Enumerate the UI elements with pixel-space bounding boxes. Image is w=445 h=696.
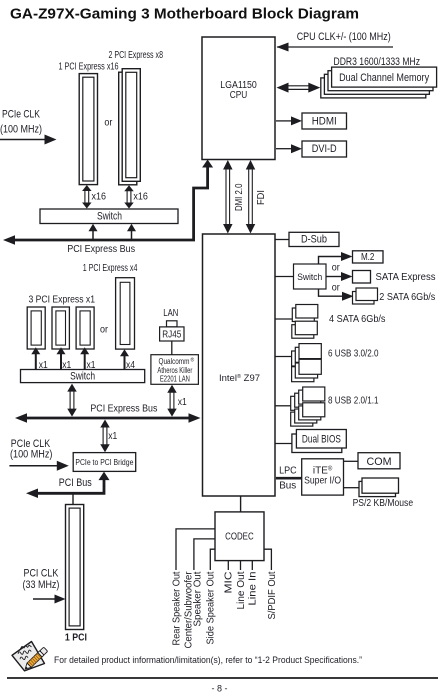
wire chipset to Dual BIOS [275, 443, 292, 445]
wire Line Out [240, 561, 242, 570]
svg-text:CODEC: CODEC [225, 530, 254, 542]
svg-text:PCI CLK: PCI CLK [24, 568, 59, 580]
svg-text:1 PCI Express x16: 1 PCI Express x16 [59, 61, 119, 73]
svg-text:PS/2 KB/Mouse: PS/2 KB/Mouse [353, 497, 414, 509]
slots 2 PCI Express x8 [119, 72, 137, 185]
svg-text:Dual BIOS: Dual BIOS [302, 434, 341, 446]
8 USB port stacks [291, 396, 313, 410]
M.2 box [353, 251, 384, 263]
PCI CLK arrow [33, 598, 55, 600]
6 USB port stacks [292, 351, 314, 366]
svg-text:GA-Z97X-Gaming 3 Motherboard B: GA-Z97X-Gaming 3 Motherboard Block Diagr… [10, 7, 359, 23]
wire chipset to 6 USB [275, 356, 292, 358]
switch box lower [21, 370, 145, 383]
wire switch to 2 SATA [319, 289, 344, 296]
svg-text:Switch: Switch [70, 370, 95, 382]
svg-text:1 PCI: 1 PCI [65, 632, 87, 643]
svg-text:COM: COM [367, 456, 392, 468]
x1 arrow C [84, 352, 86, 370]
svg-text:3 PCI Express x1: 3 PCI Express x1 [29, 293, 96, 305]
x4 arrow [124, 354, 126, 370]
svg-text:E2201 LAN: E2201 LAN [160, 375, 190, 384]
DVI-D wire [276, 148, 292, 150]
wire CPU to PCI Express Bus [14, 163, 208, 240]
wire bus to switch 1 [92, 229, 94, 240]
svg-text:1 PCI Express x4: 1 PCI Express x4 [83, 262, 138, 274]
slot 1 PCI Express x16 [79, 74, 97, 185]
svg-text:(33 MHz): (33 MHz) [23, 579, 60, 591]
footer rule [7, 677, 438, 679]
FDI bus arrow [248, 169, 250, 226]
DVI-D box [302, 141, 347, 157]
svg-text:®: ® [191, 357, 195, 364]
RJ45 box [160, 327, 184, 341]
wire chipset to 8 USB [275, 405, 291, 407]
wire chipset to storage switch [275, 276, 294, 278]
svg-text:or: or [332, 262, 340, 274]
svg-text:PCI Express Bus: PCI Express Bus [90, 402, 157, 414]
Super I/O box iTE [302, 459, 344, 495]
switch box upper [40, 209, 178, 224]
PCI Express Bus lower wire [26, 417, 190, 420]
SATA Express port box [353, 271, 371, 284]
svg-text:DVI-D: DVI-D [312, 143, 337, 155]
svg-text:D-Sub: D-Sub [301, 234, 327, 246]
svg-text:SATA Express: SATA Express [376, 271, 436, 283]
wire bus to switch 2 [131, 229, 133, 240]
PCIe CLK bottom arrow [9, 465, 58, 467]
svg-text:Bus: Bus [279, 479, 296, 491]
storage switch box [294, 264, 327, 289]
svg-text:Dual Channel Memory: Dual Channel Memory [339, 72, 429, 84]
svg-text:PCIe CLK: PCIe CLK [2, 108, 41, 120]
D-Sub wire [275, 239, 289, 241]
wire PCI bus to PCI slot [72, 493, 74, 504]
svg-text:PCI Bus: PCI Bus [59, 477, 92, 489]
svg-text:S/PDIF Out: S/PDIF Out [267, 571, 278, 619]
svg-text:Super I/O: Super I/O [304, 475, 341, 486]
svg-text:FDI: FDI [255, 190, 267, 205]
svg-text:or: or [104, 116, 112, 128]
svg-text:CPU CLK+/- (100 MHz): CPU CLK+/- (100 MHz) [297, 31, 391, 43]
svg-text:CPU: CPU [230, 90, 248, 101]
slot PCI Express x1 A [27, 307, 45, 349]
svg-text:RJ45: RJ45 [162, 329, 181, 340]
x16 arrow 1 [84, 190, 86, 204]
memory stack Dual Channel Memory [321, 78, 426, 98]
svg-text:LAN: LAN [163, 307, 178, 319]
svg-text:or: or [332, 282, 340, 294]
svg-text:HDMI: HDMI [312, 116, 337, 128]
slot PCI Express x1 B [52, 307, 69, 349]
memory bus wire [287, 85, 310, 87]
HDMI wire [276, 120, 292, 122]
svg-text:For detailed product informati: For detailed product information/limitat… [54, 655, 362, 665]
slot PCI Express x1 C [76, 307, 94, 349]
slot 1 PCI [66, 505, 84, 630]
wire MIC [227, 561, 229, 570]
svg-text:Switch: Switch [97, 211, 122, 223]
DMI 2.0 bus arrow [225, 169, 227, 226]
COM box [358, 453, 400, 469]
svg-text:Speaker Out: Speaker Out [193, 571, 204, 626]
svg-text:2 PCI Express x8: 2 PCI Express x8 [109, 49, 164, 61]
svg-text:2 SATA 6Gb/s: 2 SATA 6Gb/s [379, 291, 435, 303]
svg-text:DMI 2.0: DMI 2.0 [233, 183, 245, 211]
note icon [12, 642, 48, 672]
wire S/PDIF Out [264, 549, 271, 570]
svg-text:Line In: Line In [248, 572, 259, 606]
svg-text:M.2: M.2 [361, 252, 375, 263]
wire chipset to 4 SATA [275, 318, 292, 320]
x1 arrow to bridge [102, 427, 104, 446]
wire switch to M.2 [319, 257, 343, 265]
svg-text:Rear Speaker Out: Rear Speaker Out [171, 571, 182, 645]
svg-text:8 USB 2.0/1.1: 8 USB 2.0/1.1 [328, 394, 379, 406]
PCIe to PCI Bridge box [73, 453, 136, 472]
x1 arrow A [35, 352, 37, 370]
CPU box LGA1150 [202, 37, 275, 160]
svg-text:x16: x16 [92, 191, 107, 203]
2 SATA port stack [353, 292, 375, 305]
PCI Bus wire [37, 474, 104, 493]
wire switch to SATA Express [326, 276, 342, 278]
HDMI box [302, 113, 347, 129]
svg-text:Switch: Switch [297, 272, 322, 283]
LAN chip box Qualcomm Atheros Killer E2201 [151, 355, 199, 385]
wire Super I/O to COM [344, 460, 359, 462]
svg-text:Line Out: Line Out [236, 571, 247, 609]
svg-text:(100 MHz): (100 MHz) [10, 449, 52, 461]
svg-text:LPC: LPC [279, 465, 297, 477]
wire Rear Speaker Out [176, 529, 215, 570]
x1 arrow B [60, 352, 62, 370]
RJ45 connector tab [167, 321, 178, 327]
4 SATA port stacks [292, 308, 314, 322]
D-Sub box [289, 232, 339, 246]
svg-text:PCI Express Bus: PCI Express Bus [67, 243, 135, 255]
CODEC box [215, 512, 264, 561]
wire chipset to CODEC [240, 496, 242, 512]
Dual BIOS stack [292, 434, 342, 453]
svg-text:x1: x1 [108, 430, 117, 442]
svg-text:MIC: MIC [224, 572, 235, 594]
svg-text:4 SATA 6Gb/s: 4 SATA 6Gb/s [329, 313, 386, 325]
arrow switch to bus lower [69, 391, 71, 410]
svg-text:Qualcomm: Qualcomm [159, 357, 190, 366]
svg-text:6 USB 3.0/2.0: 6 USB 3.0/2.0 [328, 347, 379, 359]
svg-text:x16: x16 [133, 191, 148, 203]
PS/2 port stack [359, 481, 396, 496]
slot PCI Express x4 [116, 278, 135, 349]
wire Line In [251, 561, 253, 570]
chipset box Intel Z97 [203, 234, 276, 496]
wire Super I/O to PS/2 [344, 487, 360, 489]
svg-text:x1: x1 [178, 396, 187, 408]
wire Side Speaker Out [210, 549, 215, 570]
svg-text:or: or [100, 324, 108, 336]
svg-text:Side Speaker Out: Side Speaker Out [206, 571, 217, 644]
wire Center/Subwoofer [194, 539, 215, 570]
svg-text:- 8 -: - 8 - [212, 684, 228, 695]
svg-text:PCIe to PCI Bridge: PCIe to PCI Bridge [75, 457, 133, 467]
PCIe CLK top arrow [0, 139, 46, 141]
svg-text:(100 MHz): (100 MHz) [0, 123, 42, 135]
svg-text:DDR3 1600/1333 MHz: DDR3 1600/1333 MHz [334, 56, 421, 68]
wire RJ45 to LAN chip [171, 341, 173, 355]
LPC Bus wire [276, 477, 302, 480]
x1 arrow LAN [169, 392, 171, 410]
x16 arrow 2 [126, 190, 128, 203]
CPU CLK wire [277, 46, 393, 48]
